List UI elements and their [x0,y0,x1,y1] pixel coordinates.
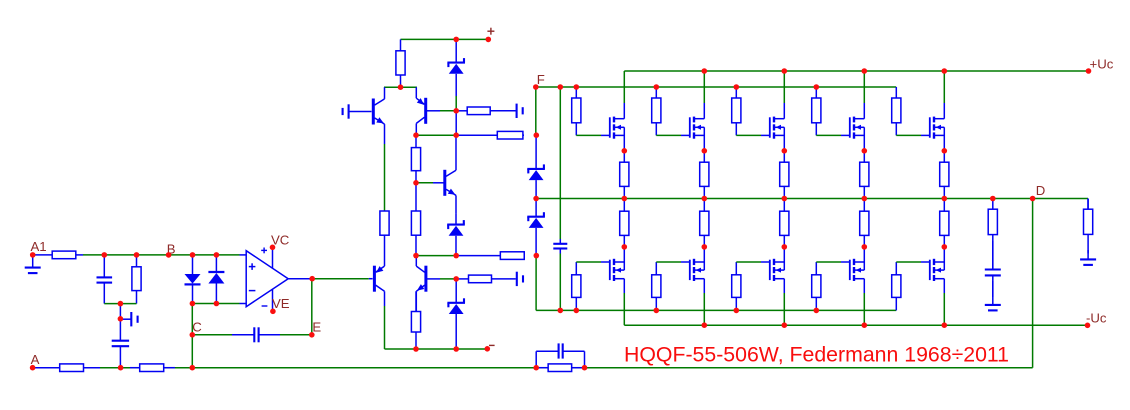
junction Z2 top [453,37,459,43]
net label + [487,28,494,35]
resistor R12 [411,183,420,256]
node A [30,365,36,371]
resistor RS2 (top source) [700,151,709,199]
resistor RS5 (top source) [940,151,949,199]
wire op-amp output [288,278,369,280]
node stub tap [118,316,124,322]
svg-text:A: A [31,352,40,367]
junction D2 bottom [214,301,220,307]
resistor RG3 (top gate) [732,87,741,135]
junction gate rail bottom col1 [574,308,580,314]
resistor RG10 (bottom gate) [892,262,901,310]
junction gate rail top col2 [654,84,660,90]
junction drain M5 +Uc [942,68,948,74]
node source M5 [942,148,948,154]
wire gate M6 [576,261,610,263]
resistor RS1 (top source) [620,151,629,199]
wire cap F upper [559,87,561,239]
wire C node vertical [191,304,193,368]
ground zobel [985,281,1001,310]
wire minus-input rail [192,303,239,305]
resistor RG6 (bottom gate) [572,262,581,310]
wire gate M2 [656,134,690,136]
junction gate rail bottom col2 [654,308,660,314]
junction C1 top [102,252,108,258]
wire zener chain bottom [536,256,896,311]
resistor R14 (zobel) [988,199,997,270]
net label - [489,344,495,346]
junction feedback RC right [582,365,588,371]
node source M3 [782,148,788,154]
node plus [486,37,492,43]
junction Q4 base [453,276,459,282]
node source M4 [862,148,868,154]
wire Q2 emitter [415,87,417,98]
wire C to cap [192,334,311,336]
junction gate rail top col4 [814,84,820,90]
wire Q2c junction [455,111,457,135]
mosfet M10 (bottom) [930,247,945,325]
mosfet M9 (bottom) [850,247,865,325]
wire Q5 base [416,182,444,184]
node A1 [30,252,36,258]
wire gate M10 [896,261,930,263]
junction R2 top [134,252,140,258]
svg-text:VE: VE [272,296,290,311]
wire gate M1 [576,134,610,136]
svg-text:HQQF-55-506W, Federmann 1968÷2: HQQF-55-506W, Federmann 1968÷2011 [624,343,1009,366]
junction gate-rail left [413,132,419,138]
wire -Uc rail [624,324,1087,326]
junction D rail col3 [782,196,788,202]
zener Z1 [447,279,465,349]
capacitor C5 (zobel) [985,241,1001,297]
junction R13 right [534,253,540,259]
resistor RS4 (top source) [860,151,869,199]
resistor R8 [456,275,516,283]
wire D rail corner [1087,199,1089,210]
mosfet M6 (bottom) [610,247,625,325]
junction feedback RC left [533,365,539,371]
junction gate rail bottom col4 [814,308,820,314]
transistor Q2 [416,98,427,124]
junction D rail col4 [862,196,868,202]
resistor R5 [396,39,405,87]
wire B rail [83,254,240,256]
node +Uc [1086,68,1092,74]
junction D1 top [190,252,196,258]
node minus [485,346,491,352]
resistor R15 (bleeder) [1084,199,1093,254]
node source M1 [622,148,628,154]
wire minus rail [385,348,488,350]
node source M8 [782,244,788,250]
node C [190,332,196,338]
node source M10 [942,244,948,250]
junction drain M10 -Uc [942,322,948,328]
wire zener chain top [535,87,537,135]
resistor RS7 (bottom source) [700,199,709,247]
resistor RS10 (bottom source) [940,199,949,247]
mosfet M5 (top) [930,71,945,151]
transistor Q3 [373,266,385,292]
wire Q1 emitter [384,124,386,211]
svg-text:A1: A1 [31,239,47,254]
wire plus rail [401,38,489,40]
wire down from junction [119,304,121,319]
wire Q2 collector [415,123,417,135]
resistor R1 [34,251,83,259]
junction D rail col5 [942,196,948,202]
node D [1030,196,1036,202]
wire E up to output [311,279,313,335]
resistor RG7 (bottom gate) [652,262,661,310]
node op-amp output [309,276,315,282]
resistor R3 [34,364,100,372]
wire gate M9 [816,261,850,263]
zener Z4 [527,135,545,198]
wire255 rail [416,255,456,257]
diode D1 [185,255,201,304]
wire Q4 base [427,278,456,280]
junction gate rail bottom col3 [734,308,740,314]
capacitor C6 (feedback) [536,343,584,367]
wire gate M7 [656,261,690,263]
junction drain M9 -Uc [862,322,868,328]
capacitor C3 [192,327,311,342]
junction drain M3 +Uc [782,68,788,74]
junction drain M7 -Uc [702,322,708,328]
diode D2 [208,255,224,304]
node B [166,252,172,258]
capacitor stub CS2 [343,104,349,118]
resistor R16 (feedback) [538,364,582,372]
resistor RG4 (top gate) [812,87,821,135]
node VE [270,309,276,315]
node E [309,332,315,338]
wire Q4 emitter [415,291,417,311]
junction R7 bottom [413,346,419,352]
wire Q1 collector [384,87,386,99]
junction drain M2 +Uc [702,68,708,74]
junction Q5 base tap [413,180,419,186]
transistor Q4 [416,266,427,292]
wire Q2 base [427,110,456,112]
junction D2 top [214,252,220,258]
wire Q3 emitter [384,235,386,266]
wire gate M4 [816,134,850,136]
junction R10 right [534,132,540,138]
mosfet M4 (top) [850,71,865,151]
zener Z5 [527,199,545,256]
junction lower-left [118,301,124,307]
resistor RS9 (bottom source) [860,199,869,247]
wire Z2 to junction [455,96,457,111]
resistor R9 [456,107,516,115]
capacitor C4 [553,239,567,254]
node -Uc [1085,323,1091,329]
svg-text:+Uc: +Uc [1090,56,1114,71]
wire Q3 base [369,278,373,280]
wire bottom rail left [33,367,1033,369]
resistor R4 [130,364,175,372]
resistor R2 [132,255,141,304]
wire F rail [536,86,896,88]
svg-text:C: C [192,319,202,334]
node source M9 [862,244,868,250]
resistor R13 [456,252,524,260]
junction gate rail top col3 [734,84,740,90]
junction drain M8 -Uc [782,322,788,328]
wire C1-R2 bottom [104,303,136,305]
wire gate M5 [896,134,930,136]
node VC [270,245,276,251]
svg-text:F: F [537,72,545,87]
wire cap F lower [559,254,561,311]
junction Z4 bottom / D rail [533,196,539,202]
op-amp U1 [240,247,289,311]
mosfet M1 (top) [610,71,625,151]
junction D rail col1 [622,196,628,202]
node source M6 [622,244,628,250]
junction Z3 bottom [453,253,459,259]
resistor RG1 (top gate) [572,87,581,135]
wire driver top rail [384,86,417,88]
zener Z3 [447,213,465,255]
wire +Uc rail [624,70,1088,72]
resistor RG8 (bottom gate) [732,262,741,310]
node source M7 [702,244,708,250]
svg-text:D: D [1036,183,1046,198]
mosfet M2 (top) [690,71,705,151]
resistor RS8 (bottom source) [780,199,789,247]
wire Q3 collector [384,291,386,349]
resistor R6 [380,211,389,235]
junction Z2-R10 [453,132,459,138]
mosfet M7 (bottom) [690,247,705,325]
junction zobel top [990,196,996,202]
junction D1 bottom [190,301,196,307]
wire Q4 collector [415,256,417,267]
junction R12 bottom [413,253,419,259]
capacitor stub CS1 [120,312,137,326]
capacitor C1 [97,255,113,304]
transistor Q1 [372,99,385,125]
resistor RG9 (bottom gate) [812,262,821,310]
wire D feedback vertical [1032,199,1034,368]
junction drain M4 +Uc [862,68,868,74]
wire Q5 collector [455,135,457,170]
ground at A1 [25,255,41,273]
transistor Q5 [443,170,456,196]
wire gate M8 [736,261,770,263]
wire Q1 base [349,111,372,113]
resistor R11 [411,135,420,183]
resistor RS3 (top source) [780,151,789,199]
resistor R7 [411,291,420,349]
node source M2 [702,148,708,154]
ground bleeder [1080,250,1096,265]
junction Z1 bottom [453,346,459,352]
mosfet M8 (bottom) [770,247,785,325]
resistor RG2 (top gate) [652,87,661,135]
wire Q5 emitter [455,195,457,213]
wire135 rail [416,134,456,136]
capacitor stub CS3 [517,104,523,118]
capacitor stub CS4 [517,272,523,286]
resistor RS6 (bottom source) [620,199,629,247]
wire D rail [536,198,1088,200]
junction gate rail top col1 [574,84,580,90]
svg-text:E: E [312,319,321,334]
zener Z2 [447,39,465,96]
resistor R10 [456,131,524,139]
junction C2 bottom [118,365,124,371]
junction cap F bottom [558,308,564,314]
junction cap F top [558,84,564,90]
junction feedback left [190,365,196,371]
resistor RG5 (top gate) [892,87,901,135]
mosfet M3 (top) [770,71,785,151]
node F [533,84,539,90]
junction R5 bottom [398,84,404,90]
capacitor C2 [112,319,129,368]
junction Z2 bottom [453,108,459,114]
wire gate M3 [736,134,770,136]
junction D rail col2 [702,196,708,202]
